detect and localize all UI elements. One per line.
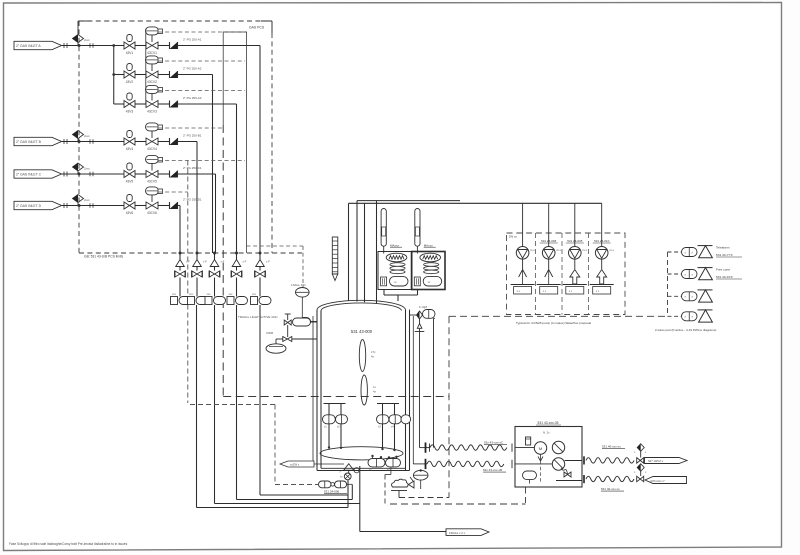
inlet flag label 2" GAS INLET C [14,170,62,178]
signal line control valve 1 [159,31,247,33]
dashed vessel drain link [384,475,386,505]
svg-text:531 43-000: 531 43-000 [351,329,373,334]
drain rotary valve [344,473,351,480]
wire [259,253,261,260]
wire check valve outlet [178,205,180,207]
svg-text:MAxxx: MAxxx [390,243,400,247]
svg-text:531 43-YYX: 531 43-YYX [716,253,733,257]
svg-text:DN xx: DN xx [509,235,517,239]
wire [259,267,261,271]
wire inlet to manual valve [62,45,125,47]
wire drop to manifold [196,142,198,254]
skid outlet valve [564,472,571,477]
svg-text:2" PG 250-A2: 2" PG 250-A2 [183,66,202,70]
level gauge LG [332,237,338,274]
wire eductor discharge [574,259,576,269]
wire to flare flag [360,531,446,533]
svg-text:x F: x F [243,260,247,264]
wire [394,424,396,450]
vessel jacket right [412,316,414,464]
svg-text:Fase Sviluppo dl filtro sale I: Fase Sviluppo dl filtro sale Italdraghe/… [9,542,128,546]
wire [214,278,216,297]
svg-text:2" PG 250-A3: 2" PG 250-A3 [183,96,202,100]
isolation valve 5 [254,271,256,278]
node branch tee 2 [112,73,115,76]
isolation valve 4 [230,271,232,278]
riser pipe 1 [348,203,350,301]
instrument pill TRA [293,318,311,326]
svg-text:2" PG 250-B1: 2" PG 250-B1 [183,133,202,137]
manual valve 43V2 [127,64,132,71]
drain tray 2 [537,284,561,286]
manual valve 43V1 [127,35,132,42]
svg-text:43CV5: 43CV5 [147,180,157,184]
dashed boundary bottom edge [79,252,302,254]
wire valve to control valve [135,141,146,143]
svg-text:43V5: 43V5 [126,180,134,184]
wire [347,483,353,485]
svg-text:43V3: 43V3 [126,110,134,114]
svg-text:2" GAS INLET A: 2" GAS INLET A [16,44,41,48]
svg-text:2xxx: 2xxx [84,38,90,42]
wire eductor discharge [548,259,550,269]
diamond stem [77,203,79,206]
wire [287,325,289,337]
wire check valve outlet [178,141,197,143]
boundary corner bracket top [261,20,272,22]
node inlet junction row 1 [78,44,81,47]
svg-text:x F: x F [221,260,225,264]
svg-text:43CV4: 43CV4 [147,147,157,151]
svg-text:531 40-xxx-xx: 531 40-xxx-xx [602,444,621,448]
wire manifold 3 drop [214,305,216,504]
flag label drain ZW [280,461,314,467]
wire [214,267,216,271]
wire [179,253,181,260]
vessel bottom [317,470,410,472]
wire [259,278,261,297]
wire manifold 4 drop [236,305,238,500]
manual valve 43V5 [127,163,132,170]
wire eductor discharge [601,259,603,269]
drain tray 3 [563,284,587,286]
remote instrument row 4 [668,315,682,317]
signal line control valve 4 [159,127,224,129]
svg-text:LSALL 431: LSALL 431 [291,283,306,287]
signal line control valve 2 [159,60,246,62]
vent line down [419,328,421,447]
control valve 43CV6 [146,187,159,195]
vent triangle [417,324,422,329]
riser pipe 2 [356,201,358,302]
dashed column header [667,252,669,316]
remote instrument row 2 [668,273,682,275]
dashed route sump horizontal [223,396,449,398]
wire control valve to check valve [158,141,170,143]
svg-text:x F: x F [203,260,207,264]
angle valve PG [409,481,415,488]
node branch tee 1 [112,44,115,47]
svg-text:x F: x F [266,260,270,264]
vessel drain nozzle [344,464,354,471]
wire valve to control valve [135,45,146,47]
svg-text:xFPxxAx x°: xFPxxAx x° [650,479,665,483]
svg-text:2-wires part (P-active - 4-19: 2-wires part (P-active - 4-19 PWxxx diag… [655,328,716,332]
svg-text:2xxx: 2xxx [84,134,90,138]
vessel internal sparger 2 [361,375,367,405]
dashed signal drop 2 [274,405,276,485]
wire route C [215,503,360,505]
diamond stem [77,43,79,46]
svg-text:MAxxx: MAxxx [424,243,434,247]
wire inlet to manual valve [62,141,125,143]
skid cell divider [535,233,537,315]
svg-text:2xxx: 2xxx [84,198,90,202]
svg-text:M: M [539,446,542,451]
dashed vertical utility [448,316,450,497]
node inlet junction row 5 [78,173,81,176]
svg-text:531 24-006: 531 24-006 [541,239,557,243]
heater bundle right group [377,403,399,405]
wire diamond to top [77,21,79,35]
svg-text:531 24-006: 531 24-006 [324,489,340,493]
pump P2 [552,458,564,470]
wire check valve outlet [178,173,216,175]
drain tray 1 [511,284,535,286]
skid sump pill [523,471,537,480]
wire valve to control valve [135,205,146,207]
electric heater unit 2 [412,252,445,290]
control valve 43CV1 [146,27,159,35]
svg-text:43CV3: 43CV3 [147,110,157,114]
instrument diamond row 6 [73,195,84,203]
wire drop to manifold [259,46,261,254]
wire actuator supply header [145,29,147,105]
svg-text:43CV6: 43CV6 [147,211,157,215]
wire control valve to check valve [158,205,170,207]
seal pot [266,344,286,353]
svg-text:F xQZ: F xQZ [419,305,427,309]
wire to vessel dome [397,295,399,301]
check valve row 6 [169,202,171,209]
wire flag to drain [314,463,344,465]
wire top stub [78,20,91,22]
wire collection header B [246,32,248,254]
svg-text:Free contr: Free contr [716,268,730,272]
wire drop to manifold [236,104,238,253]
wire eductor suction [522,203,524,246]
wire drop to manifold [212,75,214,254]
vessel wall right outer [405,310,407,471]
wire eductor suction [574,203,576,246]
svg-text:xx-x: xx-x [582,249,587,252]
wire manifold 5 drop [259,305,261,495]
check valve row 5 [169,171,171,178]
flame arrestor 5 [256,260,265,267]
flex hose 2 [427,461,504,466]
flame arrestor 1 [176,260,185,267]
thermowell at x=383.7 [381,209,386,247]
instrument set 1 [171,297,178,305]
vessel 531 43-000 [317,300,406,309]
svg-text:2" PG 250-C1: 2" PG 250-C1 [183,166,202,170]
flex hose 4 [586,476,634,481]
wire [236,278,238,297]
svg-text:Typical for 4 DN25 pump (4 cop: Typical for 4 DN25 pump (4 copies) Water… [516,321,591,325]
transfer skid 531 43-xxx-05 [515,427,582,488]
riser pipe 4 [376,201,378,304]
nozzle pill LT [300,318,311,326]
vessel bottom inner [321,467,406,469]
angle valve relief [417,311,423,319]
svg-text:CWR: CWR [266,331,274,335]
svg-text:GB: 531 43-S/B PCS limits: GB: 531 43-S/B PCS limits [84,255,124,259]
diamond stem [77,171,79,174]
wire drain drop [347,480,349,508]
svg-text:53x 43-xxx-xB: 53x 43-xxx-xB [483,468,502,472]
wire route D [197,507,349,509]
wire route B [237,499,353,501]
svg-text:LTx: LTx [371,350,376,354]
wire collection header A [222,32,224,126]
svg-text:2" GAS INLET B: 2" GAS INLET B [16,140,42,144]
wire [236,267,238,271]
sampling valve [287,314,289,320]
svg-text:531 24-005: 531 24-005 [567,239,583,243]
vessel wall left inner [320,311,322,469]
wire [236,253,238,260]
wire heater 2 outlet [417,290,419,296]
bottom instrument pair 1 [372,456,374,459]
svg-text:xx-x: xx-x [609,249,614,252]
isolation valve 1 [174,271,176,278]
svg-text:2" PG 250-A1: 2" PG 250-A1 [183,37,202,41]
wire [179,278,181,297]
outlet valve set upper [637,444,644,452]
wire [398,294,418,296]
svg-text:43CV2: 43CV2 [147,80,157,84]
wire control valve to check valve [158,74,170,76]
wire drop to manifold [215,174,217,253]
dashed boundary right edge [271,33,273,253]
svg-text:xxZW x: xxZW x [290,462,300,466]
wire purge to vessel [292,338,317,340]
svg-text:531 24-010: 531 24-010 [594,239,610,243]
wire skid bottom outlet [556,480,582,482]
instrument diamond row 1 [73,35,84,43]
horn 1 [698,245,713,247]
wire [385,474,391,476]
PG gauge cluster [413,470,428,480]
node manifold 2 [196,252,199,255]
bottom pressure instruments 531 24-006 [319,481,332,488]
isolation valve 2 [191,271,193,278]
wire [328,424,330,448]
skid cell divider [561,233,563,315]
vessel wall right inner [409,310,411,471]
svg-text:43CV1: 43CV1 [147,51,157,55]
wire heater 1 outlet [383,290,385,296]
instrument diamond row 5 [73,163,84,171]
level switch LS [296,288,310,298]
signal line control valve 3 [159,90,246,92]
dashed drain in skid [540,461,542,484]
wire [340,424,342,448]
wire [420,480,422,489]
wire inlet to manual valve [62,173,125,175]
wire eductor suction [548,203,550,246]
svg-text:N. 2x: N. 2x [543,431,550,435]
svg-text:531 43-xxx-05: 531 43-xxx-05 [538,421,559,425]
flame arrestor 3 [210,260,219,267]
hose 53x 43-xxx-xB [413,463,427,465]
remote instrument row 3 [668,295,682,297]
control valve 43CV3 [146,85,159,93]
svg-text:531 43-XXX: 531 43-XXX [716,275,733,279]
svg-text:xx-x: xx-x [556,249,561,252]
wire skid outlet [565,460,582,462]
instrument set 3 [205,297,212,305]
svg-text:43V1: 43V1 [126,51,134,55]
dashed boundary GAS PCS top edge [79,20,261,22]
vessel internal sparger 1 [359,340,365,372]
node manifold 4 [235,252,238,255]
wire skid inlet 1 [515,447,534,449]
wire control valve to check valve [158,45,170,47]
motor pump M1 [534,442,546,454]
svg-text:53x 43-xxx-xC: 53x 43-xxx-xC [484,441,504,445]
wire [384,294,398,296]
thermowell stem [383,246,385,253]
wire valve to control valve [135,74,146,76]
pump P1 [552,441,564,453]
pressure pill PI [423,310,436,319]
wire drop to flare flag [359,466,361,532]
svg-text:2xxx: 2xxx [84,167,90,171]
dashed horizontal utility [449,315,668,317]
dashed route to sump [222,125,224,397]
wire skid inlet 2 [515,463,552,465]
purge valve [283,337,292,342]
node manifold 5 [259,252,262,255]
hose 53x 43-xxx-xC [420,447,431,449]
eductor 531 24-006 [542,247,555,260]
wire check valve outlet [178,103,237,105]
horn 2 [698,267,713,269]
eductor 531 24-010 [595,247,608,260]
svg-text:43V6: 43V6 [126,211,134,215]
svg-text:TRAALL LIGHT ACTIVE 431x: TRAALL LIGHT ACTIVE 431x [238,315,278,319]
wire eductor suction [601,203,603,246]
wire [276,338,283,340]
vapor header to eductors [349,202,602,204]
control valve 43CV4 [146,123,159,131]
dashed signal horizontal [190,404,275,406]
check valve row 1 [169,42,171,49]
svg-text:531 40-xxx-xx: 531 40-xxx-xx [601,487,620,491]
wire manifold 2 drop [196,305,198,508]
eductor skid dashed box [507,233,626,315]
diamond stem [77,139,79,142]
bottom instrument pair 2 [388,458,390,459]
wire LS to nozzle [301,297,303,317]
heater bundle left group [324,403,346,405]
inlet flag label 2" GAS INLET A [14,41,62,49]
vessel bottom ring header [320,447,403,460]
svg-text:2" GAS INLET D: 2" GAS INLET D [16,204,42,208]
signal line control valve 5 [159,160,246,162]
instrument diamond row 4 [73,131,84,139]
wire pill to dashed [390,468,392,475]
wire check valve outlet [178,74,213,76]
svg-text:Telealarm: Telealarm [716,246,730,250]
svg-text:xx-x: xx-x [530,249,535,252]
node inlet junction row 6 [78,204,81,207]
wire [382,424,384,449]
flex hose 1 [430,445,507,450]
dashed boundary left edge [78,21,80,253]
flag FP return [645,477,687,484]
wire branch to manual valve [114,74,124,76]
wire [179,267,181,271]
flame arrestor 4 [232,260,241,267]
horn 4 [698,309,713,311]
horn 3 [698,289,713,291]
drain cloud [392,479,409,487]
manual valve 43V6 [127,195,132,202]
dashed route to skid [390,503,526,505]
svg-text:x F: x F [186,260,190,264]
vessel jacket left [312,316,314,462]
electric heater unit 1 [378,252,411,290]
svg-text:2" GAS INLET C: 2" GAS INLET C [16,172,42,176]
signal drop LS [302,246,304,287]
wire branch to manual valve [114,103,124,105]
node manifold 1 [179,252,182,255]
eductor 531 24-00x [516,247,529,260]
wire to vessel wall [311,321,318,323]
dashed signal drop [187,161,189,404]
signal line LS [247,245,304,247]
wire [196,253,198,260]
flag FRAAL [446,529,489,536]
riser pipe 3 [364,203,366,302]
wire eductor discharge [522,259,524,269]
skid cell divider [588,233,590,315]
svg-text:43V2: 43V2 [126,80,134,84]
remote instrument row 1 [668,251,682,253]
dashed to bottom instruments [275,484,318,486]
wire riser to pills [351,485,353,500]
flame arrestor 2 [193,260,202,267]
wire valve to control valve [135,103,146,105]
manual valve 43V4 [127,131,132,138]
thermowell at x=417.4 [415,209,420,247]
svg-text:NF° xRV2 x: NF° xRV2 x [648,459,664,463]
instrument line down [433,318,435,447]
wire [196,278,198,297]
control valve 43CV5 [146,155,159,163]
dashed riser to skid [525,488,527,505]
flag NF outlet [645,458,688,464]
check valve row 4 [169,138,171,145]
check valve row 3 [169,101,171,108]
wire drop to manifold [179,206,181,254]
svg-text:2" PG 250-D1: 2" PG 250-D1 [183,197,202,201]
wire inlet to manual valve [62,205,125,207]
wire check valve outlet [178,45,260,47]
svg-text:GAS PCS: GAS PCS [249,26,265,30]
